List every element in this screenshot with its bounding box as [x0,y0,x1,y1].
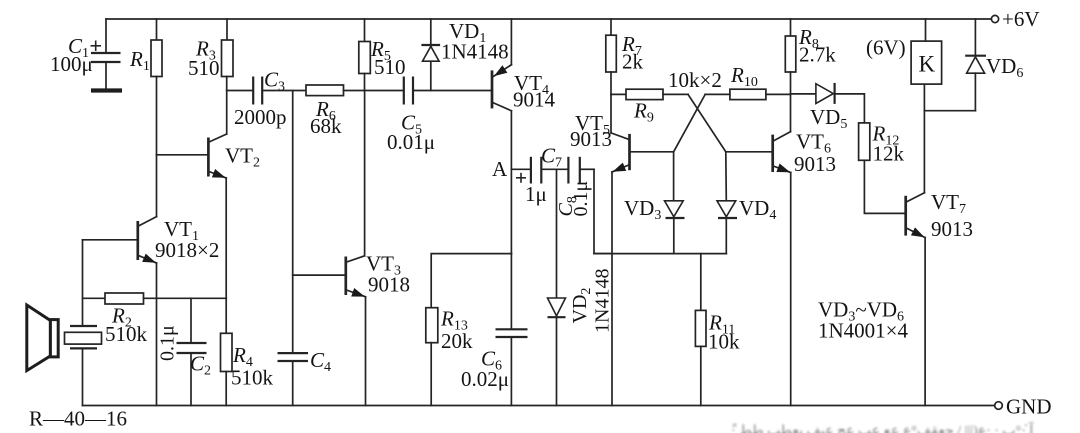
capacitor C5 0.01u [404,77,491,105]
svg-text:C7: C7 [541,144,562,171]
capacitor C7 1u [531,157,568,184]
label C1 [68,34,89,61]
label R5 [370,37,391,64]
svg-text:K: K [919,52,936,77]
svg-text:9014: 9014 [513,88,556,112]
svg-text:R1: R1 [129,47,150,74]
svg-text:C4: C4 [310,348,331,375]
label VT5 [575,111,610,138]
svg-text:12k: 12k [873,142,905,166]
label 2k value of R7 [622,50,644,74]
label 9018 value of VT3 [368,273,410,297]
label R1 [129,47,150,74]
wire: K bottom to VD6 connector [924,110,975,112]
label 510k value of R2 [105,322,148,346]
label 0.02u value of C6 [461,367,509,391]
label 510 value of R3 [188,56,220,80]
wire: VT1 base line down to piezo [82,240,84,325]
svg-text:9013: 9013 [931,217,973,241]
svg-text:0.01μ: 0.01μ [387,130,435,154]
label 510k value of R4 [231,366,274,390]
svg-text:VD5: VD5 [810,105,847,132]
diode VD5 [791,83,865,123]
label C8 (rotated) [555,196,580,216]
label 68k value of R6 [310,114,342,138]
capacitor C8 0.1u [568,157,594,184]
svg-text:A: A [492,157,508,181]
label 510 value of R5 [374,55,406,79]
svg-text:20k: 20k [441,329,473,353]
wire: C3/R6 junction down to VT3 base and C4 [292,91,294,353]
capacitor C3 2000p [253,77,306,105]
label VD5 [810,105,847,132]
svg-text:VT7: VT7 [931,190,966,217]
wire: lower flip-flop bus [594,253,726,255]
piezo transducer element [65,326,102,406]
svg-text:9013: 9013 [570,127,612,151]
label 9013 value of VT6 [794,152,836,176]
wire: GND bottom rail [83,405,995,407]
transistor VT4 [492,19,511,254]
label 9013 value of VT5 [570,127,612,151]
label VT2 [225,144,260,171]
label 0.1u value of C2 (rotated) [157,325,179,361]
wire: A node branch to R13 and C6 [431,254,511,308]
wire: R3/VT2 collector node to C3 [227,90,252,92]
label 2000p value of C3 [234,105,287,129]
label C4 [310,348,331,375]
svg-text:510: 510 [374,55,406,79]
label 10k value of R11 [708,330,740,354]
svg-text:C2: C2 [190,352,211,379]
label 1N4001x4 group value [818,319,909,343]
capacitor C1 electrolytic 100u [91,19,121,89]
label R-40-16 speaker model [29,407,127,431]
label 9013 value of VT7 [931,217,973,241]
svg-text:1N4148: 1N4148 [592,269,614,333]
svg-text:9018×2: 9018×2 [155,238,219,262]
svg-text:1N4001×4: 1N4001×4 [818,319,909,343]
transistor VT6 [726,94,791,405]
transistor VT2 [157,134,227,298]
label 0.1u value of C8 (rotated) [570,181,592,217]
resistor R6 68k [306,85,365,96]
label VT6 [796,130,831,157]
label VT7 [931,190,966,217]
label R7 [621,32,642,59]
label (6V) rating of relay [866,36,906,60]
label VD2 (rotated) [569,288,594,324]
resistor R4 510k [221,298,233,405]
relay K [911,19,942,84]
label 12k value of R12 [873,142,905,166]
capacitor C6 0.02u [496,254,528,406]
svg-text:C3: C3 [264,68,285,95]
svg-text:GND: GND [1006,395,1052,419]
label C2 [190,352,211,379]
resistor R13 20k [426,308,438,406]
label R10 [730,63,758,90]
node A [492,157,508,181]
svg-text:ً· آ̇ ·°ب · ·ع(||| / حعقف°ع عع: ً· آ̇ ·°ب · ·ع(||| / حعقف°ع عع عب عح عبف… [731,421,1034,433]
capacitor C2 0.1u [177,298,207,405]
svg-text:R9: R9 [633,99,654,126]
label 9014 value of VT4 [513,88,556,112]
label VT3 [366,252,401,279]
node +6V terminal [991,7,1039,31]
resistor R10 [730,89,791,99]
svg-text:R10: R10 [730,63,758,90]
label C6 [481,347,502,374]
label 1N4148 value of VD2 (rotated) [592,269,614,333]
transistor VT5 (mirrored) [611,94,674,405]
label C7 [541,144,562,171]
label R6 [315,97,336,124]
transistor VT1 [83,217,157,406]
svg-text:510: 510 [188,56,220,80]
diode VD4 [717,152,737,254]
resistor R2 510k [83,293,227,304]
label 1u value of C7 [525,182,547,206]
diode VD3 [665,152,685,254]
label C3 [264,68,285,95]
label R9 [633,99,654,126]
resistor R1 [151,19,162,217]
label 0.01u value of C5 [387,130,435,154]
label 10kx2 shared value of R9 R10 [668,68,722,92]
label R4 [232,343,253,370]
resistor R5 510 [359,19,371,91]
svg-text:VD2: VD2 [569,288,594,324]
svg-text:VD3: VD3 [624,196,661,223]
label VD4 [739,196,776,223]
watermark (faint) [731,421,1034,433]
svg-text:VD4: VD4 [739,196,776,223]
diode VD6 [965,19,986,111]
label VT1 [164,217,199,244]
diode VD2 1N4148 [548,169,566,405]
transistor VT7 [906,84,925,406]
label VD1 [449,19,486,46]
svg-text:R—40—16: R—40—16 [29,407,127,431]
svg-text:2k: 2k [622,50,644,74]
svg-text:0.1μ: 0.1μ [570,181,592,217]
svg-text:1N4148: 1N4148 [441,40,509,64]
diode VD1 1N4148 [421,19,440,91]
label C5 [401,111,422,138]
svg-text:9018: 9018 [368,273,410,297]
label VT4 [514,71,549,98]
label R12 [872,122,900,149]
svg-text:510k: 510k [231,366,274,390]
ground bar below C1 [91,88,122,92]
label 9018x2 value of VT1 [155,238,219,262]
label R11 [708,311,735,338]
wire: cross-coupling diagonal R10 to VT5 base [674,94,730,151]
wire: R5 node to C5 [365,90,403,92]
node GND terminal [995,395,1052,419]
label VD3 [624,196,661,223]
svg-text:10k×2: 10k×2 [668,68,722,92]
resistor R12 12k [859,123,905,213]
label 100u value of C1 [50,52,93,76]
label 20k value of R13 [441,329,473,353]
svg-text:2.7k: 2.7k [799,43,836,67]
speaker horn B [27,305,58,371]
label VD3~VD6 group note [818,298,904,325]
label R3 [195,37,216,64]
label R2 [111,304,132,331]
svg-text:10k: 10k [708,330,740,354]
resistor R7 2k [606,19,617,94]
label R13 [440,307,468,334]
svg-text:510k: 510k [105,322,148,346]
resistor R11 10k [695,254,706,406]
wire: +6V top supply rail [106,18,991,20]
label 1N4148 value of VD1 [441,40,509,64]
svg-text:0.02μ: 0.02μ [461,367,509,391]
svg-text:2000p: 2000p [234,105,287,129]
svg-text:VT2: VT2 [225,144,260,171]
capacitor C4 [278,353,309,405]
resistor R3 510 [222,19,234,134]
wire: cross-coupling diagonal R9 to VT6 base [688,94,726,151]
svg-text:100μ: 100μ [50,52,93,76]
svg-text:+6V: +6V [1002,7,1040,31]
wire: C8 down-corner to VT5 emitter line [594,169,612,253]
svg-text:1μ: 1μ [525,182,547,206]
label VD6 [986,54,1023,81]
resistor R8 2.7k [785,19,796,94]
resistor R9 [611,89,688,99]
svg-text:68k: 68k [310,114,342,138]
svg-text:(6V): (6V) [866,36,906,60]
svg-text:0.1μ: 0.1μ [157,325,179,361]
wire: node A to C7 [511,169,530,183]
svg-text:9013: 9013 [794,152,836,176]
transistor VT3 [293,91,366,406]
label R8 [798,25,819,52]
svg-text:VD6: VD6 [986,54,1023,81]
label 2.7k value of R8 [799,43,836,67]
